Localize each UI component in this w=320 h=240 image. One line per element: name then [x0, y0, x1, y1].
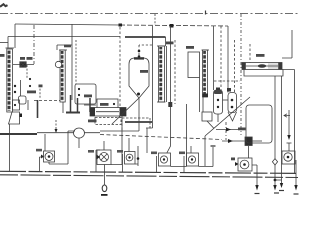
- dashed connector above capsules: [214, 80, 240, 82]
- dashed vertical x241: [240, 14, 242, 135]
- vent arrow above P7: [288, 110, 290, 136]
- rounded tank right: [246, 105, 272, 143]
- connector between capsules: [223, 99, 229, 101]
- side pipes of C3: [166, 46, 168, 102]
- right parallel verticals: [274, 76, 276, 180]
- pump P3: [117, 150, 123, 153]
- pump P1: [36, 149, 42, 152]
- bottom main header upper line: [0, 171, 298, 173]
- manifold H piping under C2: [62, 102, 64, 113]
- vertical line x152: [146, 26, 153, 128]
- label 01: [0, 54, 5, 57]
- valve line from C1: [13, 64, 34, 66]
- dashed horizontal mid-left: [34, 100, 60, 102]
- H2 left corner drop: [14, 24, 16, 37]
- pump P4: [151, 152, 157, 155]
- box 100 above exchanger: [97, 99, 118, 108]
- line y131: [100, 130, 139, 132]
- diamond blower: [74, 128, 85, 138]
- valve S101: [20, 62, 26, 67]
- arrow line 2 into valve: [222, 140, 245, 142]
- arrow at x56: [55, 120, 57, 130]
- long diagonal from exchanger return: [205, 97, 250, 136]
- line x20 down left area: [20, 80, 22, 96]
- pump P6: [231, 158, 235, 161]
- box 204: [188, 52, 200, 78]
- dashed drop at x155 from boundary: [154, 14, 156, 25]
- thick bottom line under tank: [0, 133, 37, 135]
- dashed feed into reactor top: [139, 45, 152, 57]
- side pipe x37: [37, 100, 39, 118]
- pump P2: [88, 150, 94, 153]
- C4 bottom nozzle blobs: [203, 94, 209, 98]
- HX2 right top pipe: [282, 30, 292, 58]
- reactor outlet diagonal: [112, 98, 139, 124]
- heat exchanger HX2: [242, 63, 282, 70]
- valve block: [245, 137, 252, 146]
- drain from tank to header: [9, 124, 11, 172]
- drum outlet line: [27, 100, 29, 110]
- feed line into column C1 top: [7, 37, 9, 49]
- pump P7: [282, 151, 295, 164]
- junction node at x171: [170, 24, 174, 28]
- apparatus box B1: [75, 84, 96, 104]
- side circle on C2: [55, 61, 61, 67]
- drain with ball center: [104, 165, 106, 186]
- dashed line with L tick: [39, 85, 41, 98]
- small box below C4: [202, 112, 212, 121]
- bar right of manifold: [89, 98, 91, 112]
- small left arrow near tank: [284, 114, 290, 117]
- capsule V2 top nozzle: [216, 88, 220, 91]
- tick on boundary line: [205, 11, 207, 15]
- column C3: [159, 46, 165, 102]
- dashed feeds to capsules: [213, 26, 215, 90]
- reactor V1: [129, 58, 149, 98]
- thick line y122: [125, 121, 152, 123]
- bottom right arrows: [274, 181, 276, 186]
- header line H2: [15, 24, 120, 25]
- reactor outlet vertical: [138, 98, 140, 131]
- pipes below box204: [199, 78, 201, 113]
- dashed vertical x76: [75, 40, 77, 84]
- HX2 return loop: [244, 70, 283, 77]
- H3 thick segment: [125, 36, 166, 38]
- dashed box right of reactor: [122, 118, 150, 130]
- line x40 to pump P1: [44, 134, 46, 151]
- label I03: [140, 70, 148, 73]
- C1 bottom tank: [9, 112, 20, 124]
- small drum S0N: [19, 96, 27, 104]
- C1 reboiler box: [13, 100, 20, 110]
- right long line from HX2: [282, 70, 295, 175]
- label S0N: [27, 91, 36, 94]
- bottom main header lower line: [0, 175, 298, 178]
- side nozzle dots on C1: [14, 85, 16, 87]
- label I06: [88, 120, 97, 123]
- vertical to pump row x147: [146, 128, 148, 153]
- heat exchanger HX1: [90, 108, 126, 117]
- HX1 outlet drop: [121, 116, 123, 131]
- column C4: [203, 50, 208, 97]
- vertical line x72: [71, 24, 73, 100]
- junction node at x120: [119, 24, 123, 27]
- dashed box under exchanger: [95, 118, 121, 125]
- feed dashed vertical x120: [119, 27, 121, 107]
- vertical dash-dot x34: [33, 25, 35, 64]
- boundary dash-dot line top: [0, 13, 298, 15]
- capsule V3: [228, 93, 237, 113]
- header line H3: [8, 36, 120, 38]
- dash-dot below capsule V2: [225, 122, 227, 140]
- drop from thick segment into column C3: [165, 37, 167, 46]
- label S.I01: [20, 57, 33, 60]
- transfer line with diamond: [37, 132, 100, 134]
- column C1: [7, 49, 13, 112]
- title mark top-left: [0, 4, 8, 7]
- arrow line 1: [216, 129, 238, 131]
- dashed drop from valve line: [26, 65, 28, 78]
- label 181: [64, 45, 71, 48]
- column C2: [60, 50, 65, 102]
- top feed corner to column C2: [57, 45, 72, 50]
- pump P5: [179, 152, 185, 155]
- exchanger HX2 feeds: [249, 44, 251, 63]
- stub line left edge: [0, 42, 8, 44]
- L connection bottom right: [275, 179, 282, 181]
- long dashed transfer line: [100, 135, 222, 140]
- capsule V2: [214, 90, 223, 114]
